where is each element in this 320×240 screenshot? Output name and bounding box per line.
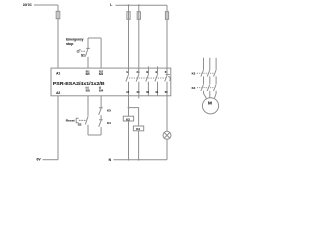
svg-text:N: N: [109, 158, 112, 162]
svg-text:43: 43: [155, 70, 158, 74]
svg-text:52: 52: [165, 90, 168, 94]
wire 24V horizontal: [34, 4, 58, 6]
wire A2 down: [57, 96, 59, 160]
svg-text:23: 23: [137, 70, 140, 74]
wire phases to motor: [204, 91, 207, 99]
svg-text:24: 24: [137, 90, 140, 94]
relay output contact 43-44: [155, 66, 159, 95]
relay output contact 13-14: [126, 68, 130, 96]
junction dot branch: [128, 107, 130, 109]
svg-text:K3: K3: [192, 71, 196, 75]
contactor K3 main contacts: [201, 70, 216, 77]
svg-text:0V: 0V: [37, 158, 42, 162]
motor M1: [202, 98, 218, 114]
contactor K4 main contacts: [201, 84, 216, 91]
svg-text:Emergency: Emergency: [66, 38, 84, 42]
lamp H1: [163, 131, 171, 139]
svg-text:34: 34: [146, 90, 149, 94]
wire N line: [114, 159, 168, 161]
fuse F4: [165, 12, 168, 20]
S1 actuator dashed link: [81, 50, 86, 52]
K3 mechanical link dashed: [197, 72, 215, 74]
svg-text:A1: A1: [56, 72, 60, 76]
wire 0V line: [43, 159, 59, 161]
relay output contact 33-34: [146, 66, 150, 95]
svg-text:A2: A2: [56, 91, 60, 95]
svg-text:S33: S33: [86, 91, 91, 93]
wire drop to pin 23: [138, 5, 140, 68]
wire reset loop right leg lower: [100, 127, 102, 135]
wire branch to K4 coil: [129, 108, 139, 126]
wire reset loop left leg upper: [87, 96, 89, 116]
coil K4: [133, 126, 143, 131]
wire K4 coil to N: [138, 131, 140, 160]
S2 actuator dashed link: [79, 119, 86, 121]
wire e-stop loop left leg upper: [87, 38, 89, 48]
wire from pin 14 down to N: [128, 96, 130, 160]
svg-text:51: 51: [165, 70, 168, 74]
wire phase 1 upper: [203, 58, 205, 70]
junction dot L/13: [128, 4, 130, 6]
svg-text:stop: stop: [66, 42, 74, 46]
svg-text:S1: S1: [81, 54, 85, 58]
junction dot L/23: [138, 4, 140, 6]
svg-text:M: M: [208, 101, 212, 107]
svg-text:K4: K4: [192, 86, 196, 90]
svg-text:13: 13: [126, 70, 129, 74]
wire 24V vertical to A1: [57, 5, 59, 68]
fuse F2: [127, 12, 130, 20]
contact K4 feedback NC: [99, 120, 103, 127]
svg-text:Reset: Reset: [66, 118, 75, 122]
wire reset loop bottom: [88, 134, 101, 136]
wire drop to pin 13: [128, 5, 130, 68]
wire lamp to N: [166, 139, 168, 159]
svg-text:K3: K3: [126, 117, 130, 121]
contact K3 feedback NC: [99, 108, 103, 115]
svg-text:44: 44: [155, 90, 158, 94]
svg-text:S21: S21: [86, 74, 91, 76]
switch S2 reset contact: [85, 116, 88, 124]
wire phase mid sections: [204, 76, 217, 84]
svg-text:K3: K3: [107, 109, 111, 113]
svg-text:24V DC: 24V DC: [23, 3, 32, 7]
wire stub below pin 24: [138, 96, 140, 99]
wire e-stop loop top: [88, 37, 101, 39]
K4 mechanical link dashed: [197, 87, 215, 89]
relay output contact 23-24: [136, 68, 140, 96]
relay output contact 51-52 NC: [165, 68, 171, 96]
wire reset loop right leg upper: [100, 96, 102, 108]
fuse F3: [137, 12, 140, 20]
wire phase 2 upper: [209, 58, 211, 70]
S2 pushbutton actuator: [76, 118, 78, 122]
junction dot N/K4: [138, 159, 140, 161]
coil K3: [123, 116, 133, 121]
svg-text:S34: S34: [99, 90, 104, 93]
switch S1 contact: [85, 49, 88, 57]
wire reset loop left leg lower: [87, 125, 89, 135]
wire drop to pin 51: [166, 5, 168, 68]
wire L horizontal: [116, 4, 168, 6]
wire e-stop loop left leg lower: [87, 57, 89, 68]
svg-text:(+): (+): [86, 88, 89, 90]
svg-text:PSR-ESA2/4x1/1x2/B: PSR-ESA2/4x1/1x2/B: [53, 81, 105, 87]
svg-text:14: 14: [126, 90, 129, 94]
svg-text:K4: K4: [107, 121, 111, 125]
wire between K3 and K4 feedback contacts: [100, 115, 102, 120]
svg-text:S22: S22: [99, 74, 104, 76]
junction dot N/K3: [128, 159, 130, 161]
svg-text:33: 33: [146, 70, 149, 74]
relay block PSR-ESA2: [51, 68, 171, 96]
fuse F1: [56, 11, 60, 18]
wire e-stop loop right leg: [100, 38, 102, 68]
svg-text:L: L: [110, 3, 112, 7]
svg-text:K4: K4: [136, 127, 140, 131]
wire from pin 52 to lamp: [166, 96, 168, 132]
svg-text:S2: S2: [78, 123, 82, 127]
S1 mushroom actuator: [77, 50, 79, 52]
mechanical link dashed: [127, 77, 166, 79]
wire phase 3 upper: [215, 58, 217, 70]
svg-text:(-): (-): [99, 88, 102, 90]
